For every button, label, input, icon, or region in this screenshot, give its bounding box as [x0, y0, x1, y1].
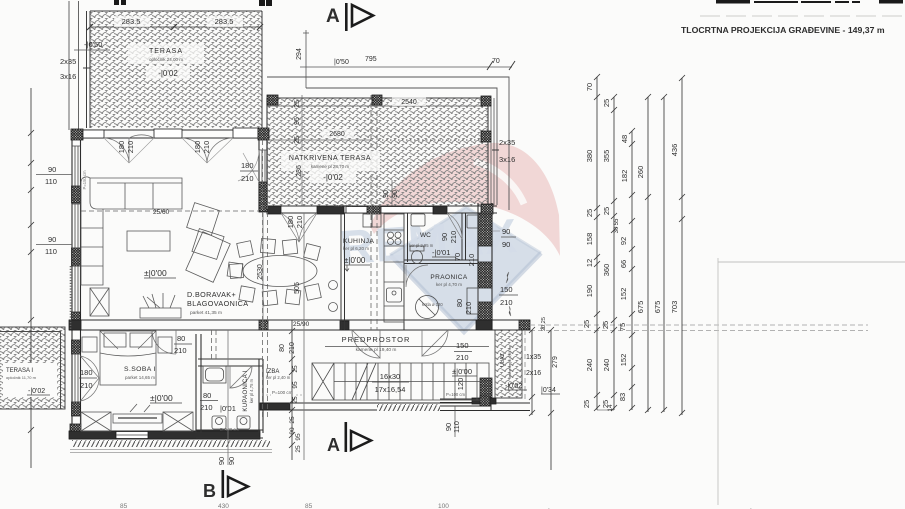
svg-text:BLAGOVAONICA: BLAGOVAONICA: [187, 299, 248, 308]
north living wall lines: [72, 130, 269, 138]
svg-text:85: 85: [120, 503, 128, 509]
main wall piers: [69, 320, 81, 330]
dim 294 vertical: [303, 30, 309, 88]
svg-text:100: 100: [438, 503, 449, 509]
svg-text:-|0'01: -|0'01: [432, 248, 450, 257]
svg-text:210: 210: [500, 298, 513, 307]
svg-text:75: 75: [618, 323, 627, 331]
room label bathroom (rotated): [220, 370, 254, 432]
dashed ulaz right: [524, 330, 526, 400]
svg-text:.: .: [548, 504, 550, 509]
svg-text:2x35: 2x35: [499, 138, 515, 147]
svg-text:B: B: [203, 481, 216, 501]
svg-text:210: 210: [174, 346, 187, 355]
dashed horiz living: [81, 210, 258, 212]
ulaz labels: [444, 317, 560, 437]
step label line left: [74, 49, 110, 51]
svg-text:P=100 cm: P=100 cm: [446, 392, 465, 397]
svg-text:180: 180: [286, 216, 295, 229]
svg-text:210: 210: [126, 141, 135, 154]
svg-text:70: 70: [585, 83, 594, 91]
svg-text:182: 182: [620, 170, 629, 183]
svg-text:85: 85: [305, 503, 313, 509]
svg-text:795: 795: [365, 56, 377, 63]
svg-text:TLOCRTNA PROJEKCIJA GRAĐEVINE: TLOCRTNA PROJEKCIJA GRAĐEVINE - 149,37 m: [681, 25, 885, 35]
svg-text:PRAONICA: PRAONICA: [430, 274, 467, 281]
svg-text:80: 80: [455, 299, 464, 307]
arrow into terrace left: [83, 67, 90, 69]
svg-text:25: 25: [582, 400, 591, 408]
svg-text:70: 70: [492, 58, 500, 65]
section marker A top: [326, 3, 373, 31]
room label terasa1: [3, 363, 57, 397]
svg-text:opločnik 24,00 m: opločnik 24,00 m: [149, 57, 183, 62]
svg-text:ker pl 4,70 m: ker pl 4,70 m: [436, 282, 462, 287]
svg-text:180: 180: [241, 161, 254, 170]
svg-text:283.5: 283.5: [122, 17, 141, 26]
dim line 2680 inside covered terrace: [267, 139, 371, 141]
ulaz south wall: [440, 399, 530, 411]
wall dim labels interior: [60, 40, 545, 465]
pier NW corner living: [71, 129, 83, 140]
living east window arc: [238, 150, 259, 182]
svg-text:±|0'00: ±|0'00: [452, 367, 472, 376]
svg-text:210: 210: [241, 174, 254, 183]
svg-text:150: 150: [500, 285, 513, 294]
svg-text:55: 55: [614, 218, 620, 225]
bedroom west window arcs: [81, 356, 100, 401]
room label praonica: [422, 274, 468, 307]
room label izba: [266, 369, 302, 395]
watermark balloon blue bottom diamond: [390, 207, 541, 332]
svg-text:95: 95: [292, 381, 299, 389]
svg-text:90: 90: [48, 165, 56, 174]
svg-text:kamene pl 4,65 m: kamene pl 4,65 m: [507, 345, 512, 377]
svg-text:210: 210: [80, 381, 93, 390]
svg-text:25: 25: [292, 365, 299, 373]
svg-text:210: 210: [464, 302, 473, 315]
svg-text:14: 14: [607, 404, 614, 412]
svg-text:|0'34: |0'34: [541, 387, 556, 394]
upper cabinet row left of kitchen: [363, 214, 372, 227]
covered terrace corner piers: [267, 95, 278, 105]
svg-text:355: 355: [602, 150, 611, 163]
svg-text:90: 90: [502, 240, 510, 249]
svg-text:S.SOBA I: S.SOBA I: [124, 366, 156, 373]
bedroom east wall: [196, 334, 201, 433]
svg-text:152: 152: [619, 288, 628, 301]
east service wall praonica: [478, 203, 492, 330]
stairs label: [372, 372, 465, 394]
kitchen small window arc: [447, 213, 462, 239]
bedroom door arc: [152, 330, 176, 354]
boiler: [467, 288, 478, 314]
svg-text:WC: WC: [420, 232, 431, 239]
room label kitchen: [343, 238, 374, 271]
hatch: top terrace TERASA: [90, 11, 262, 128]
svg-text:240: 240: [585, 359, 594, 372]
dresser south: [113, 414, 162, 423]
svg-text:D.BORAVAK+: D.BORAVAK+: [187, 290, 236, 299]
svg-text:A: A: [327, 435, 340, 455]
svg-text:±|0'00: ±|0'00: [144, 268, 167, 278]
svg-text:80: 80: [279, 344, 286, 352]
line x304 long: [303, 213, 305, 460]
dining table oval: [243, 256, 317, 287]
north kitchen wall lines: [267, 206, 497, 213]
main horizontal wall y=320..330: [69, 320, 530, 330]
svg-text:kamene pl 28,70 m: kamene pl 28,70 m: [311, 164, 350, 169]
svg-text:110: 110: [45, 247, 57, 256]
watermark balloon red top: [338, 143, 560, 332]
svg-text:210: 210: [449, 231, 458, 244]
toilet bath: [212, 416, 226, 429]
bottom edge partial numbers: [120, 503, 752, 509]
svg-text:360: 360: [602, 264, 611, 277]
svg-text:P=150 cm: P=150 cm: [82, 170, 87, 189]
svg-text:236: 236: [296, 165, 303, 177]
ulaz south area: [480, 396, 490, 406]
svg-text:zid: zid: [540, 325, 545, 330]
svg-text:25: 25: [289, 416, 296, 424]
svg-text:A: A: [326, 6, 340, 27]
pier NE corner living: [258, 128, 269, 140]
svg-text:-|0'02: -|0'02: [28, 388, 45, 395]
svg-text:ker pl 2,95 m: ker pl 2,95 m: [409, 243, 434, 248]
kitchen-hall door arc: [352, 330, 380, 358]
svg-text:110: 110: [452, 421, 461, 433]
room label living: [144, 268, 248, 316]
svg-text:430: 430: [218, 503, 229, 509]
svg-text:190: 190: [585, 285, 594, 298]
svg-text:110: 110: [45, 177, 57, 186]
chain x648: [647, 97, 649, 412]
chain x664: [663, 97, 665, 412]
watermark balloon white arc: [474, 161, 524, 204]
svg-text:kamene pl 19,40 m: kamene pl 19,40 m: [356, 347, 397, 353]
room label bedroom: [124, 366, 182, 403]
window east living: [259, 150, 267, 182]
svg-text:-|0'02: -|0'02: [323, 173, 343, 182]
svg-text:NATKRIVENA TERASA: NATKRIVENA TERASA: [289, 155, 371, 162]
dimension text right chains (rotated): [582, 83, 679, 412]
plant circles near kitchen wall: [329, 281, 338, 290]
svg-text:opločnik 11,70 m: opločnik 11,70 m: [6, 375, 37, 380]
left chain x31: [30, 88, 32, 468]
svg-text:1x35: 1x35: [526, 354, 541, 361]
predprostor south short wall: [260, 403, 290, 410]
south wall piers bedroom: [69, 431, 116, 439]
terrace door big arcs: [281, 213, 317, 242]
praonica-hall door arc: [422, 330, 448, 356]
west wall outline: [72, 130, 81, 432]
section marker A bottom: [327, 422, 371, 455]
svg-text:|0'50: |0'50: [334, 59, 349, 66]
svg-text:675: 675: [653, 301, 662, 314]
bathroom south wall: [196, 430, 263, 438]
svg-text:95: 95: [295, 433, 302, 441]
partition WC east: [462, 213, 466, 260]
faint scan lines right: [718, 258, 905, 505]
svg-text:B=120 cm: B=120 cm: [220, 427, 239, 432]
bathroom door arc: [230, 366, 252, 388]
sills kitchen north: [346, 207, 367, 214]
bed: [100, 331, 156, 385]
chain x682: [681, 78, 683, 415]
svg-text:-|0'50: -|0'50: [84, 40, 102, 49]
svg-text:25/60: 25/60: [153, 209, 170, 216]
svg-text:2540: 2540: [401, 99, 417, 106]
landing X: [312, 363, 334, 400]
TERASA labels: [114, 16, 243, 79]
ulaz side block: [480, 378, 492, 398]
hatch: covered terrace NATKRIVENA TERASA: [267, 98, 488, 206]
chain x614: [613, 97, 615, 410]
svg-text:260: 260: [636, 166, 645, 179]
mid line: [334, 381, 489, 383]
left side dimension texts: [36, 165, 87, 330]
steps on right of covered terrace: [491, 98, 494, 205]
hatch: entrance ULAZ: [495, 330, 522, 398]
svg-text:83: 83: [618, 393, 627, 401]
svg-text:12: 12: [585, 259, 594, 267]
top edge cropped header bar: [114, 0, 903, 6]
svg-text:150: 150: [456, 341, 469, 350]
svg-text:25: 25: [294, 136, 301, 144]
svg-text:505: 505: [294, 282, 301, 294]
coffee table: [127, 231, 170, 251]
bathroom top wall: [198, 359, 263, 366]
svg-text:±|0'00: ±|0'00: [150, 393, 173, 403]
svg-text:parket 41,35 m: parket 41,35 m: [190, 310, 222, 316]
svg-text:70: 70: [453, 253, 462, 261]
inner vert dim line in covered terrace: [302, 95, 392, 206]
closet X right: [163, 412, 193, 431]
partition kitchen/WC: [404, 213, 408, 330]
svg-text:-|0'02: -|0'02: [505, 383, 522, 390]
svg-text:2530: 2530: [257, 264, 264, 280]
svg-text:90: 90: [48, 235, 56, 244]
bottom tick line: [597, 409, 614, 411]
chain x300 lower: [291, 320, 293, 460]
line x263 vertical dim in dining: [262, 213, 264, 330]
hatch: left terrace TERASA I: [0, 327, 65, 409]
kitchen counter: [384, 214, 404, 322]
chain x597: [596, 77, 598, 410]
svg-text:210: 210: [295, 216, 304, 229]
svg-text:-|0'02: -|0'02: [158, 69, 178, 78]
terrace dim ticks: [87, 24, 263, 30]
east service wall piers: [478, 214, 492, 246]
dashed bath top: [212, 330, 217, 359]
wc sink: [411, 214, 425, 226]
svg-text:25: 25: [582, 320, 591, 328]
svg-text:ULAZ: ULAZ: [500, 352, 506, 367]
room label predprostor: [342, 335, 411, 353]
dim line 2540 inside covered terrace: [267, 105, 487, 107]
svg-text:PREDPROSTOR: PREDPROSTOR: [342, 335, 411, 344]
svg-text:675: 675: [636, 301, 645, 314]
bedroom south window sill: [116, 432, 148, 439]
svg-text:294: 294: [296, 48, 303, 60]
window west 3: [72, 266, 81, 312]
svg-text:180: 180: [193, 141, 202, 154]
svg-text:2680: 2680: [329, 131, 345, 138]
partition WC/praonica horizontal: [404, 260, 478, 264]
svg-text:16x30: 16x30: [380, 372, 400, 381]
svg-text:66: 66: [619, 260, 628, 268]
left approach lines top-left corner: [69, 1, 79, 130]
TV cabinet X-box: [90, 288, 109, 316]
NATKRIVENA TERASA labels: [281, 97, 426, 183]
north kitchen wall piers: [267, 206, 281, 214]
dotted line through covered terrace: [378, 139, 482, 141]
svg-text:25: 25: [585, 209, 594, 217]
svg-text:ker pl 2,40 m: ker pl 2,40 m: [266, 375, 291, 380]
arrow into terrace right: [492, 149, 499, 151]
svg-text:3x16: 3x16: [60, 72, 76, 81]
svg-text:180: 180: [80, 368, 93, 377]
svg-text:80: 80: [177, 334, 185, 343]
svg-text:210: 210: [200, 403, 213, 412]
room label wc: [409, 232, 456, 257]
armchair big tilted: [186, 232, 230, 283]
terrace top dimension line: [90, 26, 260, 28]
dashed right extension of hall line: [530, 325, 868, 331]
foundation hatch strips: [72, 440, 270, 447]
dashed pair x=263/268: [263, 140, 268, 420]
pier north wall mid-left sill frames: [83, 130, 104, 138]
svg-text:95: 95: [294, 117, 301, 125]
svg-text:25: 25: [294, 100, 301, 108]
svg-text:P=100 cm: P=100 cm: [272, 390, 293, 395]
svg-text:2x35: 2x35: [60, 57, 76, 66]
svg-text:ker pl 4,75 m: ker pl 4,75 m: [249, 378, 254, 403]
bathroom east wall: [259, 359, 263, 433]
svg-text:283.5: 283.5: [215, 17, 234, 26]
svg-text:17x16,54: 17x16,54: [375, 385, 406, 394]
fireplace sunburst: [140, 308, 181, 318]
hob circles: [388, 232, 394, 238]
svg-text:90: 90: [440, 233, 449, 241]
svg-text:240: 240: [602, 359, 611, 372]
svg-text:158: 158: [585, 233, 594, 246]
svg-text:.: .: [750, 504, 752, 509]
living north door arcs 2: [182, 138, 233, 163]
svg-text:3x16: 3x16: [499, 155, 515, 164]
praonica door arc interior: [406, 265, 428, 287]
svg-text:90: 90: [383, 190, 390, 198]
svg-text:TERASA I: TERASA I: [6, 368, 33, 374]
covered terrace hatch borders: [267, 98, 497, 206]
section line B vertical: [227, 330, 229, 465]
south wall bedroom/bath: [69, 431, 260, 439]
south wall predprostor: [260, 403, 530, 410]
svg-text:703: 703: [670, 301, 679, 314]
bidet: [237, 416, 250, 429]
window west 2: [72, 204, 81, 248]
svg-text:210: 210: [467, 254, 476, 267]
chain x632: [631, 131, 633, 410]
sofa L-shape: [90, 178, 182, 209]
svg-text:parket 14,65 m: parket 14,65 m: [125, 375, 155, 380]
wall piers dark blocks: [69, 95, 530, 439]
svg-text:48: 48: [620, 135, 629, 143]
side chair right: [227, 262, 243, 278]
living north door arcs 1: [104, 135, 154, 163]
nightstands: [82, 337, 97, 352]
svg-text:90: 90: [217, 457, 226, 465]
svg-text:25: 25: [602, 99, 611, 107]
east living wall: [259, 128, 267, 212]
ulaz chains: [532, 330, 551, 470]
svg-text:120: 120: [456, 378, 465, 391]
bathtub: [203, 366, 226, 383]
svg-text:436: 436: [670, 144, 679, 157]
svg-text:25: 25: [292, 396, 299, 404]
svg-text:92: 92: [619, 237, 628, 245]
closet X left: [81, 412, 111, 431]
svg-text:80: 80: [203, 391, 211, 400]
svg-text:90: 90: [392, 190, 399, 198]
top dim line 795: [300, 66, 512, 68]
section marker B bottom: [203, 470, 248, 501]
risers: [345, 363, 477, 400]
svg-text:2x16: 2x16: [526, 370, 541, 377]
washing machine: [416, 296, 439, 319]
svg-text:25/90: 25/90: [293, 321, 310, 328]
svg-text:210: 210: [456, 353, 469, 362]
svg-text:180: 180: [117, 141, 126, 154]
dashed pair x=371/377: [371, 95, 377, 330]
toilet: [410, 246, 424, 251]
svg-text:279: 279: [552, 356, 559, 368]
east living wall pier below window: [259, 182, 267, 212]
svg-text:25: 25: [295, 445, 302, 453]
sink kitchen: [387, 288, 402, 302]
svg-text:90: 90: [502, 227, 510, 236]
armchair 1 tilted: [187, 203, 220, 236]
partition kitchen west: [341, 213, 345, 330]
break diagonal: [352, 363, 376, 400]
svg-text:210: 210: [202, 141, 211, 154]
svg-text:ker pl 6,20 m: ker pl 6,20 m: [343, 246, 369, 251]
svg-text:TERASA: TERASA: [149, 48, 183, 55]
svg-text:KUHINJA: KUHINJA: [343, 238, 374, 245]
svg-text:25: 25: [602, 207, 611, 215]
svg-text:30: 30: [614, 226, 620, 233]
window west 1: [72, 146, 81, 186]
svg-text:25: 25: [601, 321, 610, 329]
terrace outline top: [87, 11, 263, 128]
window west bedroom: [72, 354, 81, 402]
svg-text:±|0'00: ±|0'00: [344, 256, 366, 265]
svg-text:380: 380: [585, 150, 594, 163]
svg-text:152: 152: [619, 354, 628, 367]
chairs around: [237, 241, 254, 258]
eave outline of covered terrace: [267, 77, 509, 210]
svg-text:kotla ø 120: kotla ø 120: [422, 302, 443, 307]
svg-text:210: 210: [289, 342, 296, 354]
west wall piers: [72, 186, 81, 203]
svg-text:nadvratnik: nadvratnik: [334, 203, 352, 208]
